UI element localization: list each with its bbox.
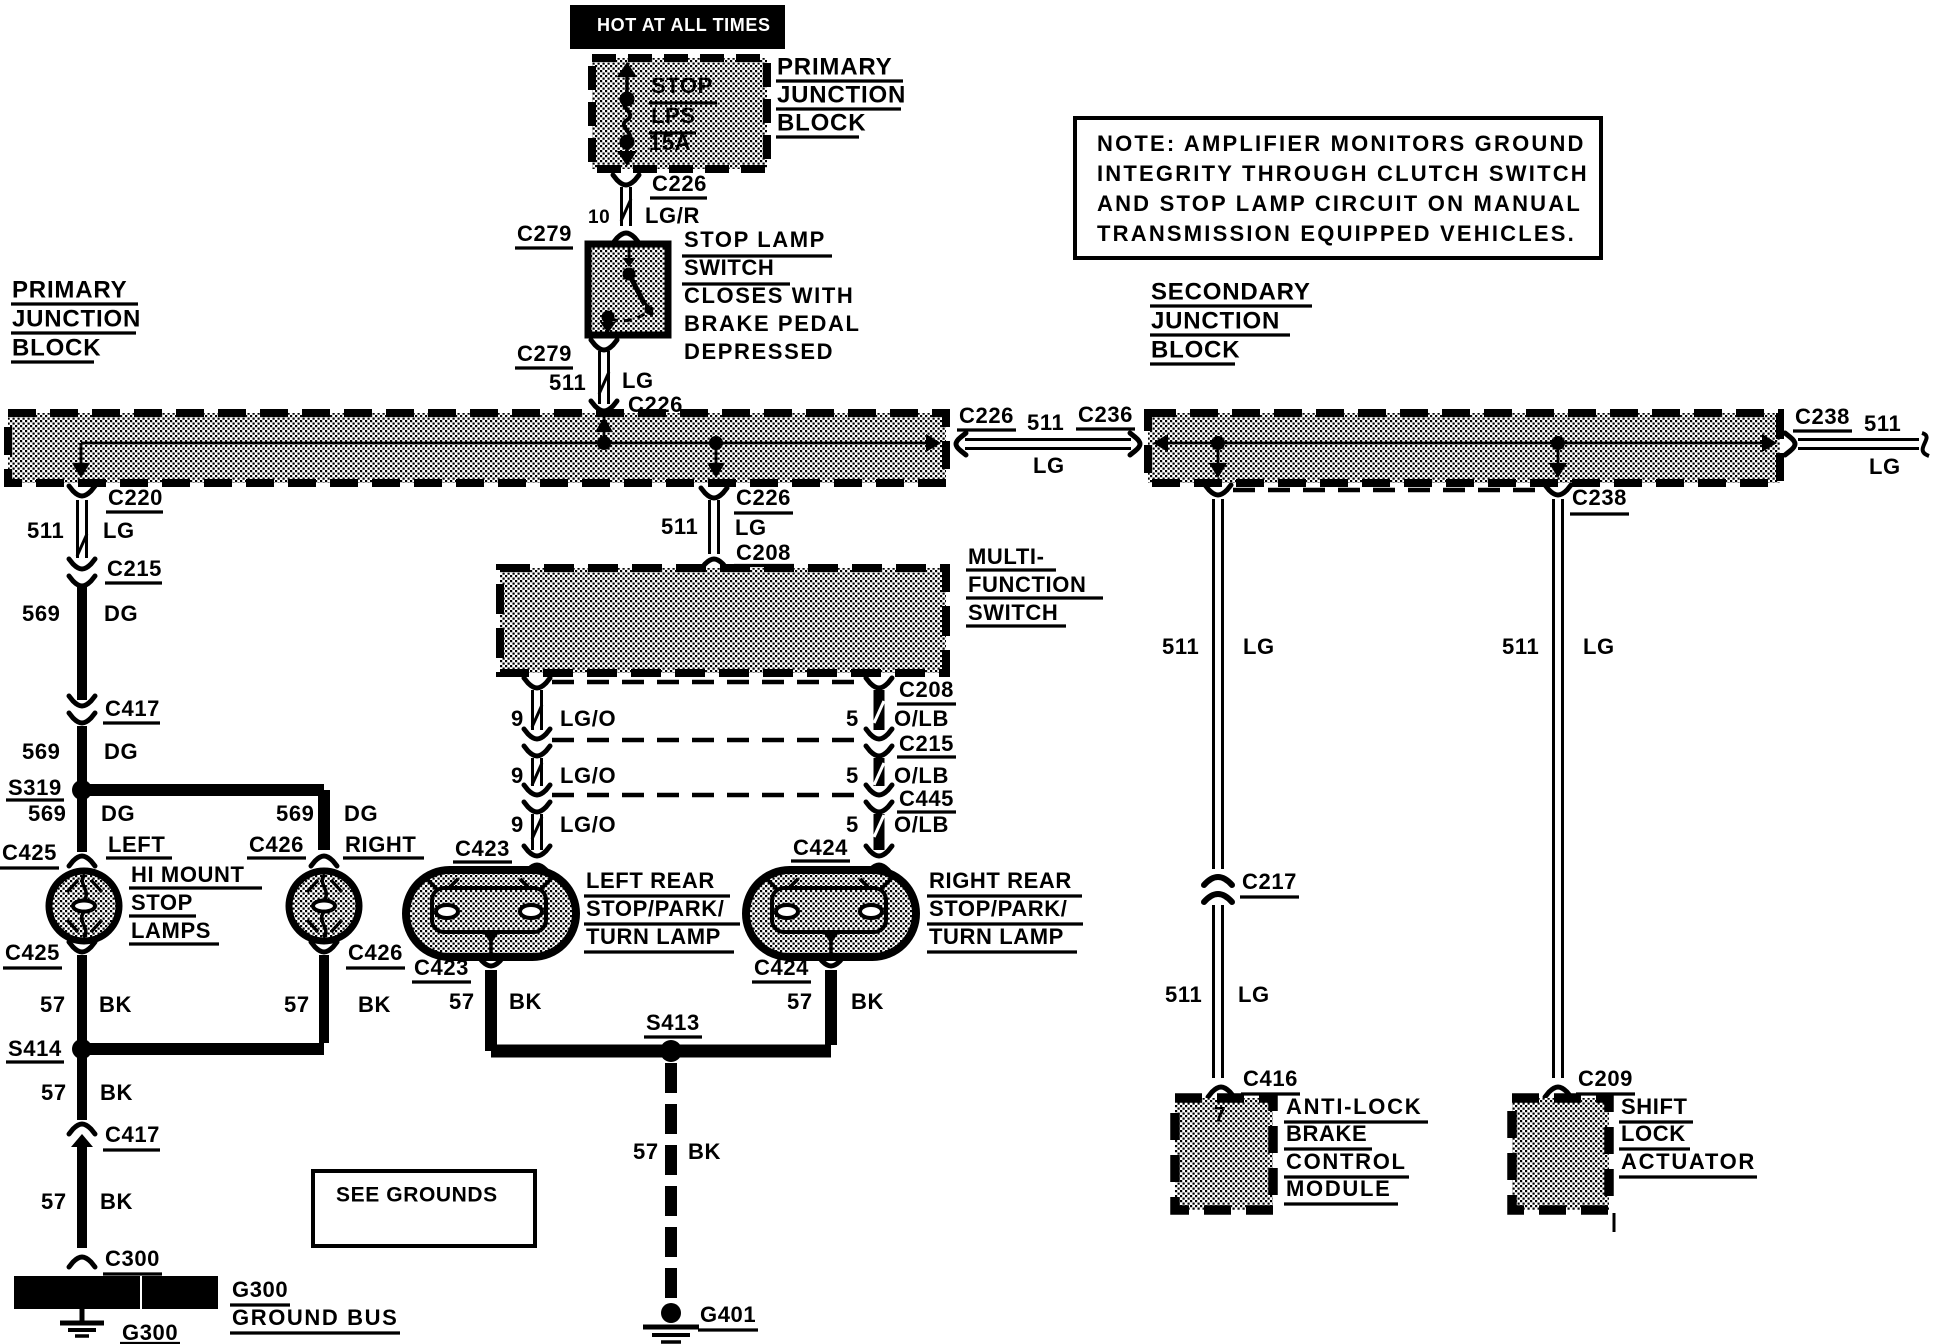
wire 511 LG (to ABS module, lower) [1165,905,1270,1078]
wire 10 LG/R [588,187,700,228]
svg-text:LEFT REAR: LEFT REAR [586,868,715,893]
svg-text:C424: C424 [754,955,809,980]
svg-text:C417: C417 [105,1122,160,1147]
left hi-mount stop lamp [49,871,119,941]
wire 9 LG/O (row 2) [511,758,616,788]
svg-text:57: 57 [41,1080,67,1105]
connector C417 (ground leg) [69,1122,160,1150]
svg-text:C208: C208 [899,677,954,702]
anti-lock brake control module box [1175,1098,1273,1210]
wire 511 LG (switch to primary bus) [549,351,684,419]
wire 57 BK (left rear lamp) [449,970,542,1051]
ground G401 [643,1302,758,1342]
wire 511 LG (left column) [27,500,135,558]
primary junction block bus [8,413,946,483]
svg-text:TURN LAMP: TURN LAMP [586,924,721,949]
shift lock actuator box [1512,1098,1609,1210]
svg-text:LG/R: LG/R [645,203,700,228]
wire 57 BK (S413 to G401, dashed) [633,1063,721,1302]
left rear stop/park/turn lamp [406,870,576,957]
svg-text:MODULE: MODULE [1286,1176,1392,1201]
wire 9 LG/O (row 3) [511,812,616,850]
svg-text:C425: C425 [5,940,60,965]
svg-text:LPS: LPS [651,103,696,128]
svg-text:G300: G300 [122,1320,178,1344]
svg-text:AND STOP LAMP CIRCUIT ON MANUA: AND STOP LAMP CIRCUIT ON MANUAL [1097,191,1582,216]
svg-text:STOP: STOP [651,73,713,98]
wire 511 LG (to shift lock actuator) [1502,499,1615,1078]
svg-text:C215: C215 [899,731,954,756]
svg-text:HOT AT ALL TIMES: HOT AT ALL TIMES [597,15,771,35]
svg-text:LEFT: LEFT [108,832,165,857]
svg-text:C208: C208 [736,540,791,565]
svg-text:DG: DG [104,601,138,626]
right hi-mount stop lamp [289,871,359,941]
svg-text:STOP/PARK/: STOP/PARK/ [929,896,1067,921]
svg-text:LG: LG [1869,454,1901,479]
svg-text:LG: LG [622,368,654,393]
right rear stop/park/turn lamp [746,870,916,957]
svg-text:511: 511 [1864,411,1901,436]
svg-text:RIGHT: RIGHT [345,832,416,857]
svg-text:511: 511 [661,514,698,539]
svg-text:BRAKE PEDAL: BRAKE PEDAL [684,311,861,336]
label primary junction block (top) [776,54,906,138]
svg-text:5: 5 [846,812,859,837]
svg-text:BLOCK: BLOCK [1151,337,1240,364]
svg-text:STOP/PARK/: STOP/PARK/ [586,896,724,921]
svg-text:C426: C426 [249,832,304,857]
svg-text:569: 569 [22,739,61,764]
ground G300 symbol [60,1309,180,1344]
svg-text:C417: C417 [105,696,160,721]
svg-text:57: 57 [284,992,310,1017]
svg-text:DG: DG [104,739,138,764]
svg-text:511: 511 [1162,634,1199,659]
svg-text:BK: BK [358,992,391,1017]
svg-text:JUNCTION: JUNCTION [12,306,141,333]
svg-text:LOCK: LOCK [1621,1121,1686,1146]
wire 57 BK (S414 to C417) [41,1055,133,1120]
svg-text:C226: C226 [652,171,707,196]
svg-text:ACTUATOR: ACTUATOR [1621,1149,1756,1174]
svg-text:SECONDARY: SECONDARY [1151,279,1311,306]
svg-text:TURN LAMP: TURN LAMP [929,924,1064,949]
label right rear stop/park/turn lamp [927,868,1083,952]
svg-text:C425: C425 [2,840,57,865]
svg-text:STOP: STOP [131,890,193,915]
wire 57 BK (left lamp to S414) [40,955,132,1049]
svg-text:LG/O: LG/O [560,812,616,837]
connector C226 / wire 511 LG / connector C236 (bus link) [956,402,1140,478]
svg-text:9: 9 [511,706,524,731]
svg-text:LG: LG [1243,634,1275,659]
connector C226 (fuse to switch) [613,171,707,198]
svg-text:C238: C238 [1572,485,1627,510]
svg-text:O/LB: O/LB [894,763,949,788]
connector C426 (lamp top) [247,832,337,866]
svg-text:LAMPS: LAMPS [131,918,211,943]
power label HOT AT ALL TIMES [570,5,785,49]
connector C424 (lamp bottom) [752,955,844,982]
svg-text:C215: C215 [107,556,162,581]
secondary junction block bus [1148,413,1780,483]
wire 57 BK (C417 to C300) [41,1145,133,1248]
wire 57 BK (right rear lamp) [677,970,884,1051]
connector C423 (lamp bottom) [412,955,504,982]
svg-text:G300: G300 [232,1277,288,1302]
svg-text:TRANSMISSION EQUIPPED VEHICLES: TRANSMISSION EQUIPPED VEHICLES. [1097,221,1576,246]
svg-text:PRIMARY: PRIMARY [12,277,127,304]
connector C426 (lamp bottom) [311,940,405,968]
label anti-lock brake control module [1284,1094,1428,1204]
connector C424 (lamp top) [791,835,892,875]
splice S413 [491,1010,702,1062]
wire 569 DG (lower) [22,726,138,790]
connector C425 (lamp top) [0,840,95,868]
wire 9 LG/O (row 1) [511,690,616,731]
svg-text:569: 569 [28,801,67,826]
connector C217 [1204,869,1299,902]
svg-text:511: 511 [1502,634,1539,659]
connector C416 [1208,1066,1300,1097]
svg-text:5: 5 [846,706,859,731]
svg-text:ANTI-LOCK: ANTI-LOCK [1286,1094,1422,1119]
svg-text:C238: C238 [1795,404,1850,429]
wire 5 O/LB (row 2) [846,758,949,788]
wire 5 O/LB (row 3) [846,812,949,850]
svg-text:569: 569 [22,601,61,626]
connector C279 (switch top) [515,221,639,248]
wire 569 DG to left hi-mount lamp [28,798,135,852]
svg-text:BK: BK [509,989,542,1014]
svg-text:10: 10 [588,207,610,228]
svg-text:C279: C279 [517,341,572,366]
svg-text:C209: C209 [1578,1066,1633,1091]
svg-text:C423: C423 [455,836,510,861]
label multi-function switch [966,544,1103,626]
svg-text:C279: C279 [517,221,572,246]
fuse STOP LPS 15A [617,62,717,166]
connector C238 (secondary bus drops, dashed link) [1205,485,1629,514]
stop lamp switch [588,244,668,335]
svg-text:S414: S414 [8,1036,62,1061]
svg-text:BLOCK: BLOCK [777,110,866,137]
svg-text:511: 511 [1027,410,1064,435]
wire 57 BK (right lamp to S414) [90,955,391,1049]
svg-text:LG/O: LG/O [560,763,616,788]
primary junction block (fuse holder box) [592,58,767,169]
svg-text:GROUND BUS: GROUND BUS [232,1305,398,1330]
svg-text:C236: C236 [1078,402,1133,427]
svg-text:BK: BK [688,1139,721,1164]
connector C208 row (left+right stubs, dashed link) [524,677,956,704]
svg-text:57: 57 [633,1139,659,1164]
svg-text:BK: BK [100,1080,133,1105]
svg-text:57: 57 [449,989,475,1014]
connector C238 / wire 511 LG (right exit) [1785,404,1929,479]
label stop lamp switch [682,227,861,364]
svg-text:INTEGRITY THROUGH CLUTCH SWITC: INTEGRITY THROUGH CLUTCH SWITCH [1097,161,1589,186]
svg-text:LG: LG [1583,634,1615,659]
svg-text:569: 569 [276,801,315,826]
svg-text:PRIMARY: PRIMARY [777,54,892,81]
svg-text:BK: BK [99,992,132,1017]
wire (primary bus internal) [72,416,941,478]
svg-text:BLOCK: BLOCK [12,335,101,362]
wire (secondary bus internal) [1153,434,1777,478]
connector C279 (switch bottom) [515,340,617,368]
connector C423 (lamp top) [453,836,550,875]
svg-text:O/LB: O/LB [894,812,949,837]
svg-text:7: 7 [1214,1103,1226,1126]
svg-text:LG: LG [1033,453,1065,478]
svg-text:C300: C300 [105,1246,160,1271]
svg-text:G401: G401 [700,1302,756,1327]
splice S319 [6,775,92,800]
svg-text:9: 9 [511,812,524,837]
label shift lock actuator [1619,1094,1757,1177]
svg-text:511: 511 [27,518,64,543]
svg-text:STOP LAMP: STOP LAMP [684,227,826,252]
svg-text:C220: C220 [108,485,163,510]
connector C300 [69,1246,162,1274]
svg-text:SWITCH: SWITCH [968,600,1058,625]
svg-text:BK: BK [851,989,884,1014]
multi-function switch box [500,568,946,673]
svg-text:LG/O: LG/O [560,706,616,731]
splice S414 [6,1036,92,1062]
svg-text:O/LB: O/LB [894,706,949,731]
svg-text:15A: 15A [649,130,691,155]
connector C209 [1545,1066,1635,1097]
connector C445 row (dashed link) [524,785,956,812]
svg-text:LG: LG [735,515,767,540]
svg-text:RIGHT REAR: RIGHT REAR [929,868,1072,893]
wire 569 DG (upper) [22,584,138,700]
svg-text:57: 57 [40,992,66,1017]
svg-text:MULTI-: MULTI- [968,544,1045,569]
svg-text:FUNCTION: FUNCTION [968,572,1086,597]
label left / right hi mount stop lamps [106,832,424,944]
svg-text:DEPRESSED: DEPRESSED [684,339,834,364]
svg-text:C416: C416 [1243,1066,1298,1091]
svg-text:C226: C226 [736,485,791,510]
svg-text:LG: LG [103,518,135,543]
svg-text:BK: BK [100,1189,133,1214]
note box [1075,118,1601,258]
svg-text:DG: DG [344,801,378,826]
label primary junction block (left) [11,277,141,363]
svg-text:HI MOUNT: HI MOUNT [131,862,245,887]
connector C215 (left column) [69,556,162,586]
svg-text:5: 5 [846,763,859,788]
svg-text:LG: LG [1238,982,1270,1007]
label secondary junction block [1150,279,1312,365]
see grounds box [313,1171,535,1246]
ground bus G300 [14,1276,400,1333]
svg-text:CLOSES WITH: CLOSES WITH [684,283,854,308]
svg-text:S413: S413 [646,1010,700,1035]
svg-text:C217: C217 [1242,869,1297,894]
svg-text:C426: C426 [348,940,403,965]
svg-text:BRAKE: BRAKE [1286,1121,1367,1146]
wire 511 LG (to ABS module, upper) [1162,499,1275,869]
connector C215 row (dashed link) [524,729,956,757]
svg-text:S319: S319 [8,775,62,800]
connector C417 (left column) [69,696,160,723]
svg-text:511: 511 [1165,982,1202,1007]
svg-text:C424: C424 [793,835,848,860]
mark below shift lock box [1613,1213,1616,1232]
svg-text:511: 511 [549,370,586,395]
svg-text:DG: DG [101,801,135,826]
wire 5 O/LB (row 1) [846,690,949,731]
svg-text:SHIFT: SHIFT [1621,1094,1688,1119]
svg-text:57: 57 [787,989,813,1014]
connector C226 / wire 511 LG / connector C208 (bus to MFS) [661,485,794,569]
svg-text:57: 57 [41,1189,67,1214]
svg-text:CONTROL: CONTROL [1286,1149,1407,1174]
wire 569 DG branch to right hi-mount lamp [90,790,378,850]
label left rear stop/park/turn lamp [584,868,740,952]
svg-text:SWITCH: SWITCH [684,255,774,280]
svg-text:JUNCTION: JUNCTION [1151,308,1280,335]
svg-text:C423: C423 [414,955,469,980]
svg-text:JUNCTION: JUNCTION [777,82,906,109]
svg-text:NOTE: AMPLIFIER MONITORS GROU: NOTE: AMPLIFIER MONITORS GROUND [1097,131,1586,156]
connector C220 [69,485,163,512]
svg-text:C445: C445 [899,786,954,811]
connector C425 (lamp bottom) [3,940,95,968]
svg-text:C226: C226 [959,403,1014,428]
svg-text:SEE GROUNDS: SEE GROUNDS [336,1183,498,1206]
